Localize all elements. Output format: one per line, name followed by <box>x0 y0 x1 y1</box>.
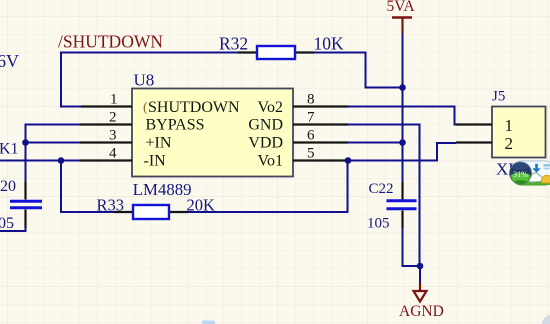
resistor R33 <box>114 205 188 219</box>
junction at 5VA / VDD <box>399 139 406 146</box>
connector J5 <box>492 107 546 158</box>
svg-text:8: 8 <box>307 92 315 108</box>
overlay widget cloud icon <box>529 173 543 182</box>
wire /SHUTDOWN vertical to pin 1 <box>61 52 81 107</box>
svg-text:Vo2: Vo2 <box>258 99 284 116</box>
pin 7 stub <box>293 123 348 125</box>
pin 5 stub <box>293 159 348 161</box>
pin 4 stub <box>80 159 132 161</box>
svg-text:AGND: AGND <box>399 303 444 320</box>
power port 5VA <box>387 0 416 33</box>
wire pin 6 (VDD) to 5VA net <box>348 142 403 144</box>
svg-text:K1: K1 <box>0 141 19 158</box>
svg-text:BYPASS: BYPASS <box>146 117 205 134</box>
pin 1 stub <box>81 105 132 107</box>
svg-text:7: 7 <box>307 110 315 126</box>
svg-text:10K: 10K <box>314 34 345 54</box>
svg-text:R32: R32 <box>219 34 248 54</box>
J5 pin 2 stub <box>456 141 492 143</box>
op-amp U8 body <box>132 89 293 177</box>
wire junction down to ground symbol <box>419 266 421 284</box>
wire pin 7 (GND) down to AGND <box>348 125 420 267</box>
svg-text:4: 4 <box>109 146 117 162</box>
wire pin4 down to R33 <box>61 161 114 213</box>
svg-text:3: 3 <box>109 128 117 144</box>
svg-text:J5: J5 <box>492 89 505 105</box>
wire pin 4 from left edge <box>0 160 80 162</box>
pin 8 stub <box>293 105 348 107</box>
svg-text:+IN: +IN <box>146 135 172 152</box>
wire C20 bottom to left edge <box>0 228 27 231</box>
svg-text:6: 6 <box>307 128 315 144</box>
svg-text:1: 1 <box>505 116 514 135</box>
svg-text:VDD: VDD <box>248 135 283 152</box>
wire pin 2 to C20 <box>26 125 81 183</box>
wire pin 5 to J5 pin 2 <box>348 143 456 161</box>
wire R33 to pin 5 <box>188 161 348 213</box>
wire pin 8 to J5 pin 1 <box>348 107 456 125</box>
junction AGND <box>417 263 424 270</box>
bottom right corner blob <box>542 315 550 324</box>
svg-text:U8: U8 <box>134 71 155 90</box>
overlay widget yellow icon <box>541 175 550 183</box>
svg-text:GND: GND <box>248 117 283 134</box>
power port AGND <box>399 283 444 320</box>
svg-text:31%: 31% <box>513 170 528 179</box>
wire C22 bottom to AGND junction <box>403 228 421 266</box>
svg-text:05: 05 <box>0 215 14 232</box>
svg-text:2: 2 <box>505 134 514 153</box>
junction pin4 <box>58 157 65 164</box>
pin 2 stub <box>80 123 132 125</box>
svg-text:LM4889: LM4889 <box>133 180 192 199</box>
svg-text:20: 20 <box>0 178 16 195</box>
resistor R32 <box>238 46 315 59</box>
wire net /SHUTDOWN top horizontal <box>61 52 238 54</box>
wire pin 3 <box>26 142 81 144</box>
svg-text:C22: C22 <box>369 181 394 197</box>
bottom edge blue blob <box>202 321 215 324</box>
junction pin5 <box>345 157 352 164</box>
pin 3 stub <box>80 141 132 143</box>
J5 pin 1 stub <box>456 123 492 125</box>
wire R32 to 5VA net <box>315 53 404 88</box>
wire 5VA vertical <box>402 33 404 182</box>
svg-text:5: 5 <box>307 146 315 162</box>
junction at 5VA / R32 wire <box>399 84 406 91</box>
svg-text:6V: 6V <box>0 51 19 71</box>
svg-text:Vo1: Vo1 <box>258 153 284 170</box>
pin 6 stub <box>293 141 348 143</box>
capacitor C22 <box>387 182 417 228</box>
capacitor C20 <box>10 182 42 228</box>
overlay widget 31% ball <box>510 162 532 184</box>
overlay widget pill <box>511 161 550 186</box>
overlay widget download arrow icon <box>532 164 550 173</box>
svg-text:-IN: -IN <box>144 153 167 170</box>
svg-text:/SHUTDOWN: /SHUTDOWN <box>58 32 163 52</box>
svg-text:2: 2 <box>109 110 117 126</box>
svg-text:5VA: 5VA <box>387 0 416 15</box>
svg-text:1: 1 <box>110 92 118 108</box>
svg-text:105: 105 <box>367 216 390 232</box>
junction pin3 / C20 line <box>22 139 29 146</box>
svg-text:R33: R33 <box>97 196 125 215</box>
svg-text:SHUTDOWN: SHUTDOWN <box>148 99 240 116</box>
